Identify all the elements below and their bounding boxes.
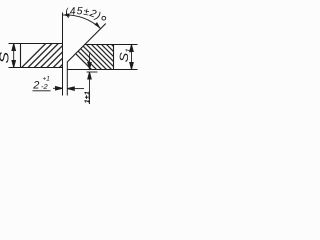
offset dimension vertical line below with up arrow [88, 72, 92, 104]
svg-text:S: S [0, 51, 12, 64]
right plate right edge [113, 45, 115, 70]
right plate bottom edge + S1 extension [67, 69, 137, 71]
dimension S: line with arrows [12, 44, 16, 68]
svg-text:2: 2 [32, 80, 39, 92]
offset dimension (1±1): lower extension tick [87, 71, 98, 73]
right plate hatching [62, 40, 144, 72]
left plate right edge / angle reference line / gap extension (x=62.5) [62, 13, 64, 96]
offset dimension vertical line above with down arrow [88, 54, 92, 70]
gap label 2 +1/-2 underlined [32, 76, 50, 92]
right plate top edge + S1 extension [85, 44, 138, 46]
bevel line 45 deg, extended above plate [67, 24, 106, 63]
right plate root face edge + gap extension (x=67.3) [66, 62, 68, 96]
left plate hatching [15, 42, 91, 74]
angle dimension arc [63, 15, 101, 29]
svg-text:-2: -2 [41, 82, 48, 91]
arc right arrowhead [94, 22, 101, 30]
arc left arrowhead [63, 13, 70, 17]
left plate outline [20, 44, 22, 68]
gap dimension arrows [53, 87, 84, 91]
svg-text:1±1: 1±1 [82, 91, 91, 103]
dimension S1: line with arrows [130, 45, 134, 70]
left plate bottom edge + S extension [9, 67, 63, 69]
left plate top edge + S extension [9, 43, 63, 45]
degree symbol [102, 16, 106, 20]
